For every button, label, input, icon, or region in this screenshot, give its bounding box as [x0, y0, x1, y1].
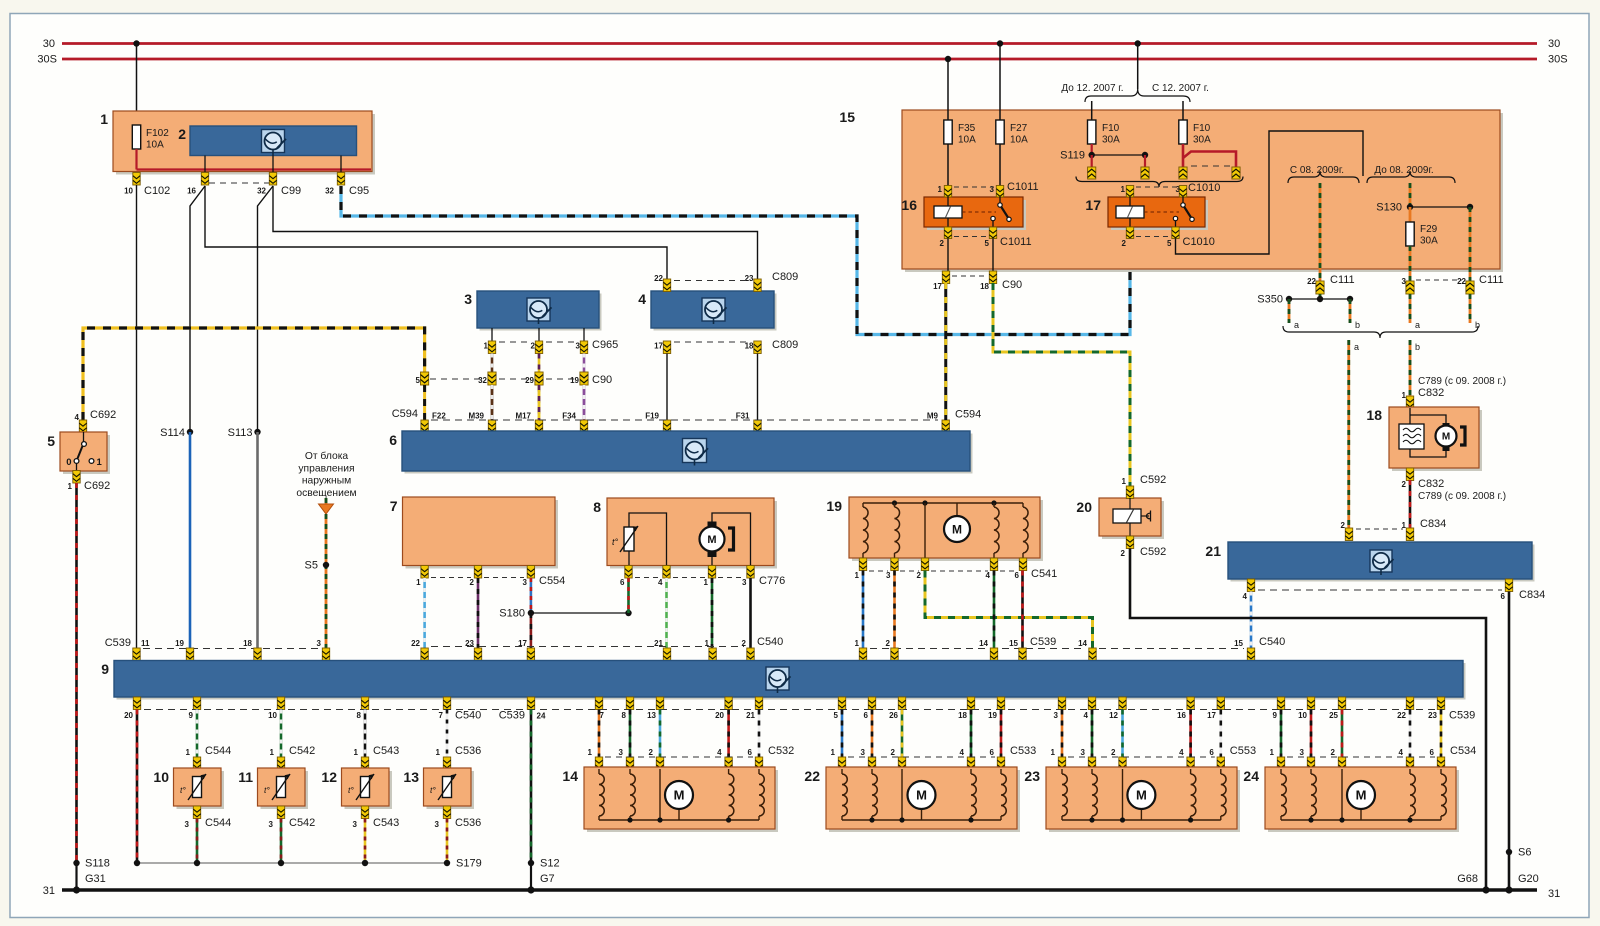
box 6	[405, 434, 973, 474]
relay 16	[927, 200, 1026, 230]
box8 pins C776	[625, 566, 632, 579]
svg-text:22: 22	[1397, 711, 1406, 720]
connector C536 pin1	[443, 757, 450, 770]
relay16 internals	[947, 197, 949, 206]
stub b right	[1469, 294, 1472, 323]
connector C834 pin1	[1406, 528, 1413, 541]
wire b to C832-1	[1409, 340, 1412, 396]
wire C543-3 down	[364, 819, 367, 864]
svg-text:6: 6	[1501, 592, 1506, 601]
connector C692 pin4	[79, 420, 86, 433]
svg-text:6: 6	[864, 711, 869, 720]
wire box9 to C536-1	[446, 710, 449, 758]
svg-text:C832: C832	[1418, 387, 1444, 399]
connector box9-12 on box9 bottom	[1119, 697, 1126, 710]
svg-text:31: 31	[43, 885, 55, 897]
svg-text:S12: S12	[540, 858, 560, 870]
wire C95 blue/black dashed to relay17 pin2	[341, 186, 1130, 335]
wire box9 to C532 x=728.6	[727, 710, 730, 758]
box23 internals	[1062, 819, 1221, 821]
svg-text:C540: C540	[757, 636, 783, 648]
connector box9-21 on box9 bottom	[755, 697, 762, 710]
connector C1011 pin2	[944, 227, 951, 239]
svg-text:18: 18	[1366, 407, 1382, 423]
svg-text:1: 1	[1270, 748, 1275, 757]
svg-text:2: 2	[178, 126, 186, 142]
svg-text:3: 3	[886, 571, 891, 580]
svg-text:1: 1	[484, 342, 489, 351]
wire box9 to C534 x=1311	[1310, 710, 1313, 758]
wire box23 pin2 internal	[1122, 769, 1124, 820]
G31 junction	[73, 886, 80, 893]
wire box9 to C542-1	[280, 710, 283, 758]
svg-text:C540: C540	[1259, 636, 1285, 648]
wire yellow/black from C692-4 to C594-F22	[83, 328, 425, 420]
svg-text:20: 20	[1076, 499, 1092, 515]
svg-text:3: 3	[317, 639, 322, 648]
connector C532 x=630	[626, 757, 633, 770]
wire S113 grey down to box9 pin18	[254, 429, 260, 435]
merge brace	[1283, 326, 1478, 338]
relay 17	[1111, 200, 1208, 230]
box 24 heater motor	[1268, 770, 1459, 832]
wire box9 to C534 x=1281	[1280, 710, 1283, 758]
svg-text:26: 26	[889, 711, 898, 720]
connector C543 pin3	[361, 806, 368, 819]
svg-text:5: 5	[47, 433, 55, 449]
connector box9-25 on box9 bottom	[1338, 697, 1345, 710]
wire box9 to C553 x=1092	[1091, 710, 1094, 758]
svg-text:G31: G31	[85, 873, 106, 885]
fuse F10 30A second	[1179, 120, 1187, 144]
wires C90 row down to C594	[491, 385, 494, 420]
connector C534 x=1410	[1406, 757, 1413, 770]
wire box9 to C533 x=971	[970, 710, 973, 758]
wire box19-4 green/black to C539-14	[993, 571, 996, 649]
connector C543 pin1	[361, 757, 368, 770]
svg-text:4: 4	[717, 748, 722, 757]
connector C533 x=872	[868, 757, 875, 770]
svg-text:16: 16	[187, 187, 196, 196]
svg-text:15: 15	[1009, 639, 1018, 648]
wire box21-6 black to G20	[1508, 592, 1511, 891]
wire box9 to C543-1	[364, 710, 367, 758]
box8 thermistor	[624, 527, 634, 551]
svg-text:C90: C90	[1002, 279, 1022, 291]
svg-text:C692: C692	[84, 480, 110, 492]
svg-text:2: 2	[1331, 748, 1336, 757]
wire green/orange Do08 branch to S130	[1409, 183, 1412, 207]
svg-text:C965: C965	[592, 339, 618, 351]
bus 30S	[62, 58, 1537, 61]
box8 motor	[712, 513, 751, 565]
svg-text:C553: C553	[1230, 745, 1256, 757]
svg-text:30A: 30A	[1193, 135, 1211, 146]
svg-text:3: 3	[742, 578, 747, 587]
box 22 heater motor	[829, 770, 1020, 832]
connector C544 pin1	[193, 757, 200, 770]
connector C1011 pin3	[996, 186, 1003, 198]
svg-text:11: 11	[238, 769, 253, 785]
arrow from control unit	[325, 498, 328, 504]
motor box24	[1360, 806, 1362, 820]
svg-text:4: 4	[1179, 748, 1184, 757]
svg-text:C692: C692	[90, 409, 116, 421]
connector C809 pin22 top	[663, 279, 670, 292]
svg-text:1: 1	[855, 639, 860, 648]
fan icon box6	[683, 439, 709, 466]
wire box9-24 black/green to S12	[530, 710, 533, 864]
svg-text:3: 3	[990, 185, 995, 194]
connector C533 x=842	[838, 757, 845, 770]
sensor box 12	[345, 771, 393, 809]
inductor coil box14 x=759	[758, 769, 760, 774]
wire black/red C832-2 to C834-1	[1409, 480, 1412, 528]
svg-text:C594: C594	[955, 409, 981, 421]
svg-text:До 12. 2007 г.: До 12. 2007 г.	[1061, 83, 1123, 94]
svg-text:2: 2	[1111, 748, 1116, 757]
connector C553 x=1220.8	[1217, 757, 1224, 770]
svg-text:2: 2	[1341, 521, 1346, 530]
box 4	[654, 294, 777, 331]
connector C542 pin1	[277, 757, 284, 770]
svg-text:7: 7	[390, 498, 398, 514]
connector box21 pin6	[1505, 579, 1512, 592]
connector box9-26 on box9 bottom	[898, 697, 905, 710]
wire blue/white box21-4 to C540-15	[1250, 592, 1253, 649]
connector C832 pin1	[1406, 396, 1413, 409]
box7 pins C554	[421, 566, 428, 579]
box19 internals	[863, 502, 1023, 504]
inductor coil box24 x=1311	[1310, 769, 1312, 774]
svg-text:1: 1	[938, 185, 943, 194]
connector C1010 pin5	[1172, 227, 1179, 239]
box3 pin stubs	[491, 328, 493, 341]
wire box19-1 blue/black to C539-1	[862, 571, 865, 649]
svg-text:1: 1	[436, 748, 441, 757]
connector C1010 pin1	[1126, 186, 1133, 198]
brace До 08.2009	[1367, 171, 1455, 183]
svg-text:4: 4	[1399, 748, 1404, 757]
wire box9 to C532 x=660	[659, 710, 662, 758]
svg-text:F27: F27	[1010, 123, 1028, 134]
svg-text:F34: F34	[562, 412, 576, 421]
svg-text:C539: C539	[1030, 636, 1056, 648]
svg-text:4: 4	[1243, 592, 1248, 601]
svg-text:M: M	[674, 788, 685, 803]
svg-text:21: 21	[1205, 543, 1221, 559]
svg-text:0: 0	[66, 457, 71, 468]
svg-text:30: 30	[1548, 38, 1560, 50]
svg-text:5: 5	[985, 239, 990, 248]
connector C539-8 on box9 bottom	[361, 697, 368, 710]
connector C539-14 on box9 top	[990, 648, 997, 661]
connector box9-7 on box9 bottom	[595, 697, 602, 710]
wire box9 to C534 x=1342	[1341, 710, 1344, 758]
svg-text:6: 6	[1430, 748, 1435, 757]
svg-text:3: 3	[1300, 748, 1305, 757]
inductor coil box23 x=1092	[1091, 769, 1093, 774]
svg-text:22: 22	[654, 274, 663, 283]
wire yellow/black C90-5 to C594-F22	[423, 385, 426, 420]
connector C534 x=1281	[1277, 757, 1284, 770]
svg-text:4: 4	[960, 748, 965, 757]
svg-text:10: 10	[268, 711, 277, 720]
connector C1010 pin2	[1126, 227, 1133, 239]
svg-text:1: 1	[100, 111, 108, 127]
svg-text:F31: F31	[736, 412, 750, 421]
motor box18	[1443, 423, 1450, 428]
connector C533 x=1001	[997, 757, 1004, 770]
svg-text:3: 3	[435, 820, 440, 829]
wire box9 to C532 x=759	[758, 710, 761, 758]
svg-text:3: 3	[522, 578, 527, 587]
wire S180 red/black to C540-17	[530, 613, 533, 648]
svg-text:3: 3	[861, 748, 866, 757]
connector C540-17 on box9 top	[527, 648, 534, 661]
svg-text:C541: C541	[1031, 568, 1057, 580]
svg-text:17: 17	[1085, 197, 1101, 213]
connector box9-10 on box9 bottom	[1307, 697, 1314, 710]
svg-text:управления: управления	[298, 463, 354, 474]
svg-text:29: 29	[525, 376, 534, 385]
G7 junction	[527, 886, 534, 893]
svg-text:C834: C834	[1519, 589, 1545, 601]
svg-text:M: M	[707, 534, 716, 546]
svg-text:22: 22	[804, 768, 820, 784]
wire to F10 second	[1182, 101, 1184, 120]
box22 internals	[842, 819, 1001, 821]
svg-text:4: 4	[638, 291, 646, 307]
svg-text:M: M	[952, 522, 962, 536]
svg-text:С 08. 2009г.: С 08. 2009г.	[1290, 165, 1344, 176]
svg-text:1: 1	[1051, 748, 1056, 757]
wire box9 to C533 x=1001	[1000, 710, 1003, 758]
svg-text:S114: S114	[160, 427, 185, 439]
connector C540-15 on box9 top	[1247, 648, 1254, 661]
bus 30	[62, 42, 1537, 45]
wire box8-6 green/red to S180	[627, 578, 630, 613]
svg-text:31: 31	[1548, 888, 1560, 900]
connector C533 x=902	[898, 757, 905, 770]
connector box9-18 on box9 bottom	[967, 697, 974, 710]
wire box9-20 black/red to sensor bus	[136, 710, 139, 864]
connector C553 x=1190.6	[1187, 757, 1194, 770]
svg-text:24: 24	[537, 712, 546, 721]
stub b left	[1349, 299, 1352, 323]
wire black/yellow C90-17 to C594-M9	[944, 283, 947, 420]
wire box14 pin2 internal	[659, 769, 661, 820]
wire box9 to C553 x=1062	[1061, 710, 1064, 758]
wire box8-4 lightgreen/white to C540-21	[665, 578, 668, 648]
svg-text:C533: C533	[1010, 745, 1036, 757]
connector C532 x=759	[755, 757, 762, 770]
svg-text:24: 24	[1243, 768, 1259, 784]
svg-text:1: 1	[1402, 391, 1407, 400]
svg-text:G20: G20	[1518, 873, 1539, 885]
svg-text:2: 2	[1121, 549, 1126, 558]
svg-text:M17: M17	[515, 412, 531, 421]
svg-text:9: 9	[1273, 711, 1278, 720]
connector C539-9 on box9 bottom	[193, 697, 200, 710]
connector C99 pin16	[201, 173, 208, 186]
svg-text:1: 1	[354, 748, 359, 757]
connector box9-6 on box9 bottom	[868, 697, 875, 710]
connector box9-5 on box9 bottom	[838, 697, 845, 710]
svg-text:3: 3	[576, 342, 581, 351]
svg-text:C1011: C1011	[1000, 236, 1032, 248]
svg-text:22: 22	[1307, 277, 1316, 286]
svg-text:1: 1	[855, 571, 860, 580]
svg-text:F29: F29	[1420, 224, 1438, 235]
svg-text:F22: F22	[432, 412, 446, 421]
C539 row dashed lines	[143, 648, 320, 650]
svg-text:23: 23	[745, 274, 754, 283]
wire to F10 first	[1091, 101, 1093, 120]
wire box9 to C534 x=1441	[1440, 710, 1443, 758]
svg-text:10A: 10A	[146, 140, 164, 151]
svg-text:6: 6	[748, 748, 753, 757]
svg-text:C543: C543	[373, 745, 399, 757]
inductor coil box24 x=1281	[1280, 769, 1282, 774]
connector C540-22 on box9 top	[421, 648, 428, 661]
svg-text:F10: F10	[1193, 123, 1211, 134]
wire S114 blue down to box9 pin19	[187, 429, 193, 435]
connector C539-10 on box9 bottom	[277, 697, 284, 710]
wire bus30 to box1	[136, 44, 138, 126]
svg-text:2: 2	[1402, 480, 1407, 489]
connector C540-1 on box9 top	[709, 648, 716, 661]
wire box8-3 black to C540-2	[749, 578, 752, 648]
S179 junction	[444, 860, 450, 866]
connector box9-3 on box9 bottom	[1058, 697, 1065, 710]
svg-text:17: 17	[1207, 711, 1216, 720]
svg-text:4: 4	[658, 578, 663, 587]
stub a right	[1409, 294, 1412, 323]
connector C553 x=1122.5	[1119, 757, 1126, 770]
svg-text:20: 20	[715, 711, 724, 720]
box19 pin connectors C541	[859, 558, 866, 571]
fuse F35 10A	[944, 120, 952, 144]
svg-text:C592: C592	[1140, 474, 1166, 486]
svg-text:2: 2	[940, 239, 945, 248]
svg-text:C539: C539	[105, 637, 131, 649]
svg-text:F35: F35	[958, 123, 976, 134]
S5 junction	[323, 562, 329, 568]
svg-text:5: 5	[834, 711, 839, 720]
svg-text:3: 3	[269, 820, 274, 829]
brace fuse outputs to C1010	[1076, 177, 1243, 188]
svg-text:C1010: C1010	[1183, 236, 1215, 248]
S130 junction	[1407, 204, 1413, 210]
connector box21 pin4	[1247, 579, 1254, 592]
svg-text:1: 1	[270, 748, 275, 757]
svg-text:C832: C832	[1418, 478, 1444, 490]
svg-text:19: 19	[988, 711, 997, 720]
svg-text:10: 10	[124, 187, 133, 196]
wire box9 to C553 x=1122.5	[1121, 710, 1124, 758]
sensor box 13	[427, 771, 475, 809]
svg-text:10: 10	[153, 769, 169, 785]
svg-text:2: 2	[891, 748, 896, 757]
svg-text:C594: C594	[392, 408, 418, 420]
S350 junction row	[1319, 294, 1322, 299]
wire C99-32 diagonal to S113 column	[258, 186, 274, 432]
connector C592 pin1	[1126, 486, 1133, 499]
relay17 internals	[1129, 197, 1131, 206]
svg-text:C534: C534	[1450, 745, 1476, 757]
connector C539-1 on box9 top	[859, 648, 866, 661]
connector C542 pin3	[277, 806, 284, 819]
wire box22 pin2 internal	[901, 769, 903, 820]
svg-text:16: 16	[901, 197, 917, 213]
box2 pin stubs	[204, 156, 206, 173]
svg-text:15: 15	[839, 109, 855, 125]
C90 inline connector row	[421, 372, 429, 385]
box 5 switch	[63, 435, 110, 474]
connector C540-7 on box9 bottom	[443, 697, 450, 710]
svg-text:18: 18	[243, 639, 252, 648]
wire C536-3 down	[446, 819, 449, 864]
svg-text:C90: C90	[592, 374, 612, 386]
connector C534 x=1441	[1437, 757, 1444, 770]
svg-text:1: 1	[1122, 477, 1127, 486]
svg-text:M: M	[916, 788, 927, 803]
svg-text:9: 9	[101, 661, 109, 677]
wire box9 to C532 x=630	[629, 710, 632, 758]
wire green/orange right branch down	[1469, 207, 1472, 281]
svg-text:1: 1	[1121, 185, 1126, 194]
inductor coil box22 x=842	[841, 769, 843, 774]
svg-text:1: 1	[588, 748, 593, 757]
svg-text:F19: F19	[645, 412, 659, 421]
S12 junction	[528, 860, 534, 866]
svg-text:C554: C554	[539, 575, 565, 587]
wire box9 to C532 x=599	[598, 710, 601, 758]
svg-text:20: 20	[124, 711, 133, 720]
svg-text:6: 6	[1015, 571, 1020, 580]
svg-text:2: 2	[917, 571, 922, 580]
svg-text:14: 14	[979, 639, 988, 648]
connector C692 pin1	[73, 471, 80, 484]
svg-text:8: 8	[357, 711, 362, 720]
box 19 blower	[852, 500, 1043, 561]
svg-text:C592: C592	[1140, 546, 1166, 558]
svg-text:C1010: C1010	[1188, 182, 1220, 194]
box 23 heater motor	[1049, 770, 1240, 832]
connector C965 pins 1 2 3	[488, 341, 495, 354]
connector C532 x=660	[656, 757, 663, 770]
svg-text:наружным: наружным	[302, 476, 351, 487]
connector C539-18 on box9 top	[254, 648, 261, 661]
inductor coil box14 x=728.6	[728, 769, 730, 774]
svg-text:M: M	[1136, 788, 1147, 803]
svg-text:b: b	[1415, 342, 1420, 352]
connector box9-8 on box9 bottom	[626, 697, 633, 710]
svg-text:C544: C544	[205, 745, 231, 757]
svg-text:a: a	[1415, 320, 1420, 330]
svg-text:10: 10	[1298, 711, 1307, 720]
svg-text:3: 3	[1081, 748, 1086, 757]
connector box9-20 on box9 bottom	[725, 697, 732, 710]
wire green/yellow C90-18 to C592-1	[993, 283, 1130, 486]
box14 internals	[599, 819, 759, 821]
svg-text:S130: S130	[1376, 202, 1402, 214]
svg-text:S5: S5	[305, 560, 318, 572]
connector box9-16 on box9 bottom	[1187, 697, 1194, 710]
wire relay16 pin5 to C90-18	[992, 239, 994, 272]
svg-text:1: 1	[186, 748, 191, 757]
